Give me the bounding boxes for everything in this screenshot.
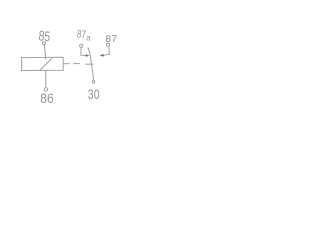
svg-text:30: 30	[88, 86, 100, 102]
label 86	[40, 90, 54, 106]
label 85	[38, 27, 51, 44]
svg-text:87: 87	[76, 28, 86, 41]
wire 85 to coil	[44, 45, 45, 60]
armature common blade	[88, 47, 94, 80]
mechanical link dashed wire	[63, 63, 93, 66]
relay coil K1 box	[22, 57, 64, 71]
wire 87a contact	[81, 48, 86, 56]
wire 87 contact	[104, 46, 110, 55]
terminal circle 86	[44, 88, 47, 91]
coil diagonal	[40, 58, 52, 70]
svg-text:a: a	[86, 34, 91, 43]
terminal circle 87	[106, 43, 109, 46]
label 87	[105, 33, 117, 45]
arrowhead contact 87a	[86, 54, 90, 57]
terminal circle 87a	[80, 44, 83, 47]
label 30	[88, 86, 100, 102]
svg-text:86: 86	[40, 90, 54, 106]
terminal circle 30	[92, 80, 95, 83]
arrowhead contact 87	[99, 54, 103, 57]
label 87a	[76, 28, 91, 42]
wire coil to 86	[45, 71, 47, 88]
terminal circle 85	[43, 42, 46, 45]
